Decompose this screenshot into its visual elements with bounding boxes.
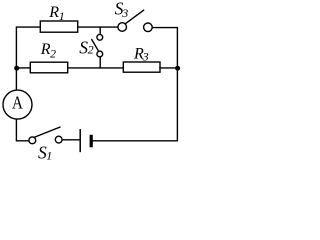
battery long plate bbox=[79, 130, 81, 152]
junction node B (right) bbox=[175, 66, 180, 71]
svg-text:1: 1 bbox=[59, 9, 65, 23]
wire S1 to battery bbox=[62, 139, 79, 141]
resistor R1 bbox=[40, 21, 77, 32]
switch S1 bbox=[29, 127, 62, 144]
wire S2 branch bottom stub bbox=[99, 58, 101, 68]
resistor R3 bbox=[123, 62, 160, 72]
wire S2 branch top stub bbox=[99, 27, 101, 34]
svg-text:2: 2 bbox=[50, 47, 56, 61]
wire middle right (R3 to node B) bbox=[160, 67, 177, 69]
battery short thick plate bbox=[90, 135, 93, 148]
switch S3 bbox=[118, 10, 152, 31]
wire left vertical (top corner to ammeter) bbox=[16, 27, 40, 90]
svg-text:2: 2 bbox=[88, 43, 94, 57]
svg-text:1: 1 bbox=[46, 148, 52, 162]
wire left vertical (ammeter to bottom corner) bbox=[16, 120, 28, 141]
wire middle (R2 to R3) bbox=[68, 67, 124, 69]
svg-text:3: 3 bbox=[142, 49, 149, 63]
wire top middle (R1 to S3) bbox=[78, 26, 118, 28]
ammeter A bbox=[3, 90, 32, 119]
svg-text:R: R bbox=[48, 4, 59, 21]
wire right vertical (node B to bottom corner) bbox=[93, 68, 177, 141]
wire top right + right vertical down to node B bbox=[152, 28, 177, 68]
svg-text:A: A bbox=[12, 92, 24, 113]
resistor R2 bbox=[30, 62, 67, 73]
svg-text:3: 3 bbox=[121, 6, 128, 20]
switch S2 bbox=[92, 34, 103, 57]
junction node A (left) bbox=[14, 66, 19, 71]
wire middle left (node A to R2) bbox=[16, 67, 30, 69]
